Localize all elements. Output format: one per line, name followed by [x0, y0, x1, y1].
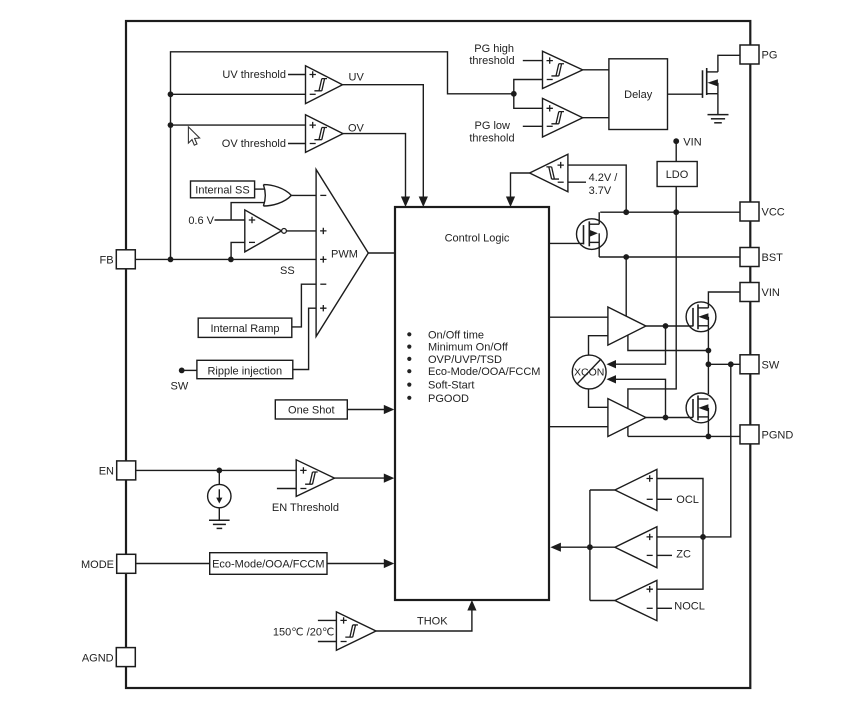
- arrow comparators into control logic: [550, 543, 561, 552]
- box Ripple injection: [197, 360, 293, 378]
- wire thermal plus stub: [318, 619, 337, 621]
- IC outline border: [126, 21, 750, 688]
- box Eco-Mode/OOA/FCCM: [210, 553, 327, 575]
- junction dot low-side source on PGND: [706, 434, 712, 440]
- comparator PG low: [543, 98, 583, 137]
- svg-text:PG: PG: [762, 50, 778, 62]
- wire BST to high-side driver supply: [625, 257, 627, 316]
- svg-text:VIN: VIN: [683, 136, 701, 148]
- wire thermal minus stub: [318, 641, 337, 643]
- arrow OV into control logic: [401, 197, 410, 208]
- wire Internal Ramp to PWM minus: [292, 284, 316, 327]
- wire ZC plus input: [657, 536, 703, 538]
- wire LDO output to VCC rail: [675, 187, 677, 213]
- wire OV threshold stub: [288, 143, 306, 145]
- wire SW node to low-side FET drain: [707, 364, 709, 394]
- junction dot FB/UV branch: [168, 91, 174, 97]
- transistor high-side MOSFET: [686, 302, 716, 332]
- wire BST switch drain to VCC rail: [598, 212, 600, 224]
- wire OR gate lower input from 0.6V: [231, 203, 265, 220]
- box Internal SS: [191, 181, 255, 198]
- svg-text:PGND: PGND: [762, 430, 794, 442]
- wire comparator bus to control logic: [559, 546, 590, 548]
- wire control logic to BST switch gate: [549, 242, 583, 244]
- svg-text:BST: BST: [762, 252, 784, 264]
- arrow EN into control logic: [384, 474, 395, 483]
- wire PG low plus input: [514, 94, 543, 109]
- comparator PG high: [543, 51, 583, 88]
- wire EN comparator minus stub: [277, 488, 296, 490]
- comparator PWM: [316, 170, 368, 337]
- junction dot high-side gate feedback: [663, 323, 669, 329]
- svg-text:OV: OV: [348, 123, 365, 135]
- wire control logic to low-side driver: [549, 426, 608, 428]
- node VIN internal: [673, 138, 679, 144]
- wire high-side driver output to gate: [646, 325, 693, 327]
- svg-text:AGND: AGND: [82, 652, 114, 664]
- svg-text:PGOOD: PGOOD: [428, 393, 469, 405]
- wire OCL minus stub: [657, 498, 672, 500]
- wire VCC to low-side driver supply: [628, 212, 676, 408]
- svg-text:threshold: threshold: [469, 133, 514, 145]
- svg-text:150℃ /20℃: 150℃ /20℃: [273, 627, 334, 639]
- wire high-side gate feedback to XCON: [610, 326, 666, 364]
- svg-text:MODE: MODE: [81, 559, 114, 571]
- svg-text:SW: SW: [762, 360, 780, 372]
- wire ZC output: [590, 546, 615, 548]
- svg-text:OCL: OCL: [676, 494, 699, 506]
- junction dot SW sense branch: [728, 361, 734, 367]
- comparator EN threshold: [296, 460, 334, 497]
- comparator error amp 0.6V: [245, 210, 282, 252]
- wire SW node to SW pin: [708, 363, 740, 365]
- comparator thermal shutdown: [336, 612, 376, 650]
- wire UVLO output to control logic: [511, 173, 530, 201]
- wire low-side driver return to PGND: [627, 427, 629, 437]
- comparator NOCL: [615, 580, 657, 620]
- svg-text:4.2V /: 4.2V /: [589, 172, 619, 184]
- wire mode box to control logic: [327, 563, 388, 565]
- wire Internal SS to OR gate: [255, 188, 265, 190]
- comparator OV: [306, 115, 344, 153]
- svg-text:LDO: LDO: [666, 169, 689, 181]
- arrow THOK into control logic: [467, 600, 476, 611]
- comparator OCL: [615, 469, 657, 510]
- wire PG MOSFET source to ground: [717, 94, 719, 115]
- wire OCL output: [590, 489, 615, 491]
- svg-text:ZC: ZC: [676, 549, 691, 561]
- block Control Logic: [395, 207, 549, 600]
- wire high-side driver return to SW: [628, 335, 709, 350]
- pin MODE: [117, 554, 136, 573]
- svg-text:threshold: threshold: [469, 55, 514, 67]
- svg-text:SW: SW: [171, 380, 189, 392]
- svg-text:PG low: PG low: [475, 120, 511, 132]
- wire 0.6V reference: [215, 219, 245, 221]
- wire EN to current source: [218, 470, 220, 484]
- wire control logic to high-side driver: [549, 316, 608, 318]
- junction dot comparator bus: [587, 544, 593, 550]
- arrow UV into control logic: [419, 197, 428, 208]
- svg-text:One Shot: One Shot: [288, 405, 334, 417]
- wire Ripple injection to PWM plus: [293, 308, 316, 369]
- svg-text:VIN: VIN: [762, 287, 780, 299]
- wire BST switch source to BST line: [598, 242, 600, 257]
- svg-text:EN Threshold: EN Threshold: [272, 502, 339, 514]
- wire OCL plus input: [657, 479, 703, 590]
- wire FB horizontal to PWM: [136, 258, 316, 260]
- svg-text:VCC: VCC: [762, 207, 785, 219]
- svg-text:OV threshold: OV threshold: [222, 138, 286, 150]
- wire MODE pin to mode box: [136, 563, 210, 565]
- wire high-side FET source to SW node: [707, 326, 709, 365]
- junction dot LDO on VCC rail: [673, 209, 679, 215]
- wire UV comparator minus input: [171, 93, 306, 95]
- junction dot UVLO sense on VCC rail: [623, 209, 629, 215]
- svg-text:Internal Ramp: Internal Ramp: [210, 323, 279, 335]
- wire OV output to control logic: [343, 134, 406, 201]
- svg-text:Internal SS: Internal SS: [195, 185, 249, 197]
- box One Shot: [275, 400, 347, 419]
- svg-text:XCON: XCON: [574, 367, 604, 379]
- buffer high-side driver: [608, 307, 646, 345]
- wire NOCL minus stub: [657, 607, 672, 609]
- wire UVLO minus reference stub: [568, 181, 586, 183]
- svg-text:3.7V: 3.7V: [589, 185, 612, 197]
- pin PG: [740, 45, 759, 64]
- wire SW sense vertical to ZC: [703, 364, 731, 537]
- svg-text:On/Off time: On/Off time: [428, 329, 484, 341]
- junction dot SW node: [706, 361, 712, 367]
- wire XCON to high-side driver enable: [589, 336, 608, 356]
- junction dot FB/OV branch: [168, 122, 174, 128]
- list control logic functions: [407, 332, 411, 336]
- svg-text:UV threshold: UV threshold: [222, 69, 286, 81]
- arrow into XCON lower: [607, 375, 617, 383]
- box Internal Ramp: [198, 318, 292, 337]
- svg-text:Eco-Mode/OOA/FCCM: Eco-Mode/OOA/FCCM: [212, 559, 324, 571]
- wire UV output to control logic: [343, 85, 424, 201]
- comparator ZC: [615, 527, 657, 568]
- svg-text:Eco-Mode/OOA/FCCM: Eco-Mode/OOA/FCCM: [428, 366, 540, 378]
- comparator UV: [306, 66, 343, 104]
- pin EN: [117, 461, 136, 480]
- svg-text:Minimum On/Off: Minimum On/Off: [428, 342, 509, 354]
- wire PG high output to Delay: [583, 69, 609, 71]
- wire PG MOSFET drain to PG pin: [718, 55, 740, 72]
- wire VIN pin to high-side FET drain: [708, 292, 740, 303]
- junction dot FB wire at node vertical: [168, 257, 174, 263]
- arrow into XCON upper: [607, 360, 617, 368]
- pin VCC: [740, 202, 759, 221]
- svg-text:Ripple injection: Ripple injection: [207, 365, 282, 377]
- junction node FB-to-PGcomps: [511, 91, 517, 97]
- junction dot ZC plus input: [700, 534, 706, 540]
- wire high-side FET drain lead: [707, 303, 709, 308]
- wire EN pin to comparator: [136, 469, 296, 471]
- wire PG low minus stub: [523, 125, 543, 127]
- svg-text:EN: EN: [99, 466, 114, 478]
- svg-text:THOK: THOK: [417, 615, 448, 627]
- pin BST: [740, 248, 759, 267]
- wire VIN to LDO: [675, 141, 677, 161]
- svg-text:UV: UV: [349, 72, 365, 84]
- ground PG MOSFET: [708, 114, 729, 116]
- wire error amp minus to FB: [231, 242, 245, 259]
- svg-text:OVP/UVP/TSD: OVP/UVP/TSD: [428, 354, 502, 366]
- wire PGND line: [628, 435, 740, 437]
- svg-text:PWM: PWM: [331, 249, 358, 261]
- wire UV threshold stub: [288, 74, 306, 76]
- arrow UVLO into control logic: [506, 197, 515, 208]
- svg-text:PG high: PG high: [474, 43, 514, 55]
- wire low-side gate feedback to XCON: [610, 379, 666, 417]
- junction dot BST/driver supply: [623, 254, 629, 260]
- pin FB: [116, 250, 135, 269]
- pin AGND: [116, 648, 135, 667]
- transistor PG open-drain MOSFET: [702, 70, 704, 98]
- wire current comparators output bus: [589, 490, 591, 601]
- buffer low-side driver: [608, 399, 646, 437]
- svg-text:Soft-Start: Soft-Start: [428, 380, 474, 392]
- pin VIN: [740, 283, 759, 302]
- svg-text:FB: FB: [100, 255, 114, 267]
- junction dot EN pulldown: [216, 468, 222, 474]
- transistor low-side MOSFET: [686, 393, 716, 423]
- wire FB node vertical + top run to PG comparators: [171, 52, 514, 260]
- arrow MODE into control logic: [384, 559, 395, 568]
- pin PGND: [740, 425, 759, 444]
- wire UVLO plus input from VCC rail: [568, 165, 626, 212]
- wire current source to ground: [218, 508, 220, 520]
- or-gate soft-start select: [263, 185, 291, 206]
- arrow One Shot into control logic: [384, 405, 395, 414]
- wire OR gate output to PWM minus: [291, 194, 316, 196]
- wire PG high minus input: [514, 80, 543, 94]
- box LDO: [657, 162, 697, 187]
- pin SW: [740, 355, 759, 374]
- wire Delay output to PG MOSFET gate: [668, 93, 703, 95]
- svg-text:0.6 V: 0.6 V: [188, 215, 214, 227]
- junction dot high-side driver return: [706, 348, 712, 354]
- wire VCC rail: [600, 211, 740, 213]
- wire PG high plus stub: [523, 60, 543, 62]
- wire ZC minus stub: [657, 554, 672, 556]
- wire One Shot to control logic: [347, 409, 388, 411]
- wire EN comparator output: [335, 477, 389, 479]
- wire low-side FET source to PGND: [707, 417, 709, 437]
- ground EN current source: [209, 519, 230, 521]
- svg-text:SS: SS: [280, 265, 295, 277]
- wire NOCL output: [590, 600, 615, 602]
- wire PWM output to control logic: [368, 252, 395, 254]
- junction dot low-side gate feedback: [663, 415, 669, 421]
- comparator VCC UVLO 4.2V/3.7V: [530, 154, 568, 192]
- junction dot FB/0.6V comparator branch: [228, 257, 234, 263]
- wire error amp output to PWM plus: [286, 230, 316, 232]
- current source EN pulldown: [208, 484, 231, 507]
- wire OV comparator plus input: [171, 124, 306, 126]
- wire BST line: [599, 256, 740, 258]
- svg-text:NOCL: NOCL: [674, 601, 705, 613]
- mouse cursor: [188, 127, 199, 145]
- wire PG low output to Delay: [583, 117, 609, 119]
- transistor BST switch MOSFET: [577, 219, 608, 250]
- wire THOK to control logic: [376, 606, 472, 631]
- node SW ripple input: [179, 368, 185, 374]
- wire SW to ripple injection: [182, 369, 197, 371]
- svg-text:Delay: Delay: [624, 89, 653, 101]
- svg-text:Control Logic: Control Logic: [445, 233, 510, 245]
- wire low-side driver output to gate: [646, 417, 693, 419]
- circle XCON cross-conduction block: [572, 355, 606, 389]
- wire XCON to low-side driver enable: [589, 389, 608, 408]
- box Delay: [609, 59, 668, 130]
